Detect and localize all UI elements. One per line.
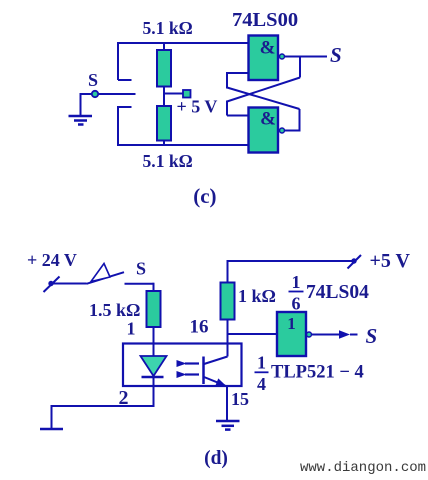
- wire fixed contact (d): [125, 283, 154, 285]
- node +5V square dot: [183, 90, 191, 98]
- svg-text:S: S: [330, 43, 342, 67]
- ground (d) pin15: [216, 421, 240, 430]
- svg-text:6: 6: [292, 294, 301, 314]
- svg-text:1.5 kΩ: 1.5 kΩ: [89, 300, 140, 320]
- svg-text:+5 V: +5 V: [370, 250, 411, 272]
- wire cross diagonal A: [227, 78, 300, 102]
- svg-text:15: 15: [231, 389, 249, 409]
- wire lower contact stub: [118, 106, 132, 108]
- wire contact down to R4: [153, 283, 155, 291]
- wire left vertical A: [226, 101, 228, 116]
- svg-text:(c): (c): [193, 184, 216, 208]
- resistor R4 1.5k: [147, 291, 161, 327]
- terminal +24V dot: [48, 281, 53, 286]
- wire gate1 output: [285, 56, 327, 58]
- resistor R2 5.1k: [157, 106, 171, 141]
- wire lower contact vertical: [117, 106, 119, 146]
- ground (d) left bar: [40, 428, 63, 431]
- LED triangle: [141, 356, 167, 376]
- gate U1A output bubble: [280, 54, 285, 59]
- wire output tail after arrow: [350, 334, 358, 336]
- switch blade triangle flag: [91, 264, 110, 282]
- light arrow 1: [177, 360, 187, 367]
- terminal +5V slash: [348, 255, 362, 269]
- wire junction A vertical: [299, 57, 301, 78]
- ground (c): [69, 116, 93, 125]
- wire +24V to blade: [51, 283, 87, 285]
- wire +5V branch: [164, 93, 184, 95]
- terminal +5V dot: [351, 258, 356, 263]
- svg-text:1: 1: [292, 272, 301, 292]
- gate U1B output bubble: [280, 128, 285, 133]
- label fraction 1/4 bar: [255, 371, 269, 373]
- svg-text:74LS00: 74LS00: [232, 9, 298, 31]
- wire R2 bottom stub: [163, 140, 165, 146]
- op-amp gate U1A 74LS00: [249, 36, 279, 81]
- svg-text:S: S: [88, 70, 98, 90]
- wire upper contact vertical: [117, 42, 119, 80]
- wire switch pole arm: [95, 93, 136, 95]
- transistor Q1 emitter arrowhead: [215, 378, 226, 385]
- svg-text:www.diangon.com: www.diangon.com: [300, 460, 426, 476]
- svg-text:+ 24 V: + 24 V: [27, 250, 77, 270]
- op-amp inverter U2 74LS04: [277, 312, 306, 356]
- svg-text:1: 1: [287, 314, 296, 333]
- svg-text:16: 16: [190, 317, 209, 338]
- wire +5V rail (d): [228, 260, 355, 262]
- light arrow 2: [177, 371, 187, 378]
- wire R1 top stub: [163, 42, 165, 50]
- svg-text:TLP521 − 4: TLP521 − 4: [271, 363, 364, 383]
- wire switch pole to ground: [81, 93, 96, 116]
- svg-text:2: 2: [119, 387, 129, 409]
- svg-text:S: S: [136, 259, 146, 279]
- wire gate2 output: [285, 130, 300, 132]
- wire R1-R2 middle link: [163, 86, 165, 107]
- svg-text:4: 4: [257, 374, 266, 394]
- svg-text:S: S: [366, 324, 378, 348]
- transistor Q1 base line: [202, 357, 205, 385]
- wire top rail: [117, 42, 249, 44]
- svg-text:&: &: [260, 38, 276, 59]
- wire to left ground: [52, 405, 155, 429]
- wire node16 to inverter input: [228, 333, 278, 335]
- svg-text:&: &: [260, 109, 276, 130]
- transistor Q1 collector diagonal: [204, 357, 228, 365]
- wire switch blade (d): [87, 272, 125, 284]
- op-amp gate U1B 74LS00: [249, 108, 279, 153]
- wire upper contact stub: [118, 79, 132, 81]
- wire gate2 input1 horizontal: [227, 115, 249, 117]
- wire junction B vertical: [299, 109, 301, 132]
- wire R4 to LED: [153, 327, 155, 357]
- svg-text:74LS04: 74LS04: [306, 282, 369, 303]
- terminal +24V slash: [44, 277, 60, 293]
- inverter U2 output bubble: [307, 332, 312, 337]
- svg-text:(d): (d): [204, 448, 228, 469]
- wire cross diagonal B: [227, 88, 300, 110]
- svg-text:1: 1: [127, 319, 136, 339]
- svg-text:+ 5 V: + 5 V: [177, 97, 218, 117]
- output arrow (d): [339, 330, 350, 339]
- svg-text:5.1 kΩ: 5.1 kΩ: [143, 18, 193, 38]
- wire left vertical B: [226, 72, 228, 89]
- wire gate1 input2 horizontal: [227, 72, 249, 74]
- transistor Q1 emitter diagonal: [204, 377, 225, 386]
- resistor R3 1k: [221, 283, 235, 320]
- LED cathode bar: [142, 376, 164, 379]
- wire rail to R3: [227, 260, 229, 283]
- svg-text:5.1 kΩ: 5.1 kΩ: [143, 151, 193, 171]
- wire bottom rail: [117, 144, 249, 146]
- resistor R1 5.1k: [157, 50, 171, 87]
- optocoupler box TLP521: [123, 344, 242, 387]
- svg-text:1 kΩ: 1 kΩ: [238, 286, 276, 306]
- wire emitter vertical to ground: [226, 385, 228, 421]
- wire LED cathode down: [153, 377, 155, 408]
- switch S pole node (c): [92, 91, 98, 97]
- label fraction 1/6 bar: [289, 291, 304, 293]
- wire R3 to collector: [227, 320, 229, 357]
- wire inverter output: [312, 334, 341, 336]
- svg-text:1: 1: [257, 353, 266, 373]
